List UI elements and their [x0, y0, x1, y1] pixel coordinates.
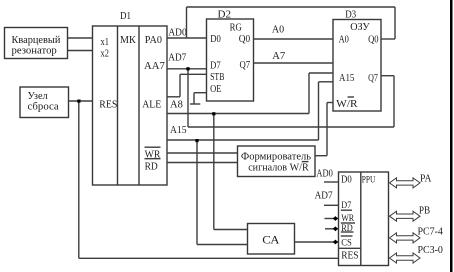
- svg-text:D1: D1: [120, 10, 131, 22]
- svg-text:МК: МК: [120, 34, 136, 46]
- svg-text:RES: RES: [99, 98, 117, 110]
- svg-text:PA0: PA0: [145, 34, 162, 46]
- svg-text:ОЗУ: ОЗУ: [350, 21, 370, 33]
- svg-text:W/R: W/R: [336, 98, 358, 110]
- svg-text:OE: OE: [210, 83, 222, 95]
- svg-text:STB: STB: [210, 71, 224, 83]
- svg-text:PC3-0: PC3-0: [418, 245, 443, 256]
- svg-text:CS: CS: [341, 238, 352, 248]
- svg-text:D0: D0: [210, 33, 221, 45]
- svg-text:A0: A0: [272, 24, 284, 36]
- svg-text:PA: PA: [420, 173, 432, 184]
- svg-text:Q7: Q7: [240, 59, 251, 71]
- svg-text:A15: A15: [339, 72, 354, 84]
- svg-text:A15: A15: [170, 124, 187, 136]
- svg-text:A0: A0: [339, 33, 349, 45]
- svg-text:Q7: Q7: [368, 72, 378, 84]
- svg-text:A8: A8: [170, 98, 183, 110]
- svg-text:Q0: Q0: [239, 33, 250, 45]
- svg-text:ALE: ALE: [142, 98, 161, 110]
- svg-text:RG: RG: [230, 22, 242, 34]
- svg-text:A7: A7: [272, 50, 286, 62]
- svg-text:AD0: AD0: [168, 26, 186, 38]
- svg-text:PPU: PPU: [362, 176, 376, 186]
- svg-text:x1: x1: [101, 36, 109, 48]
- svg-text:PB: PB: [419, 205, 430, 216]
- svg-text:x2: x2: [101, 48, 109, 60]
- svg-text:СА: СА: [262, 233, 280, 247]
- svg-text:AD7: AD7: [168, 52, 187, 64]
- svg-text:резонатор: резонатор: [12, 45, 57, 57]
- svg-text:RES: RES: [341, 250, 358, 262]
- svg-text:D2: D2: [218, 8, 232, 20]
- svg-text:PC7-4: PC7-4: [418, 227, 444, 238]
- svg-text:D7: D7: [210, 60, 221, 72]
- svg-text:AD0: AD0: [316, 168, 333, 180]
- svg-text:AD7: AD7: [315, 189, 334, 201]
- svg-text:сигналов W/R: сигналов W/R: [248, 161, 309, 173]
- svg-text:D0: D0: [341, 174, 352, 186]
- svg-text:D3: D3: [345, 9, 356, 21]
- svg-text:RD: RD: [145, 161, 158, 173]
- svg-text:сброса: сброса: [28, 101, 59, 113]
- svg-text:AA7: AA7: [144, 60, 165, 72]
- svg-text:Q0: Q0: [368, 33, 379, 45]
